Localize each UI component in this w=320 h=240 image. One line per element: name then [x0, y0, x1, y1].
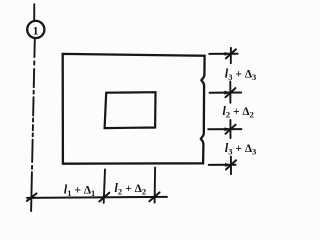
- svg-text:l3 + Δ3: l3 + Δ3: [225, 66, 256, 82]
- svg-text:l1 + Δ1: l1 + Δ1: [64, 182, 96, 198]
- svg-text:l3 + Δ3: l3 + Δ3: [225, 141, 256, 157]
- svg-text:1: 1: [33, 23, 39, 37]
- svg-text:l2 + Δ2: l2 + Δ2: [222, 104, 254, 120]
- svg-text:l2 + Δ2: l2 + Δ2: [114, 181, 146, 197]
